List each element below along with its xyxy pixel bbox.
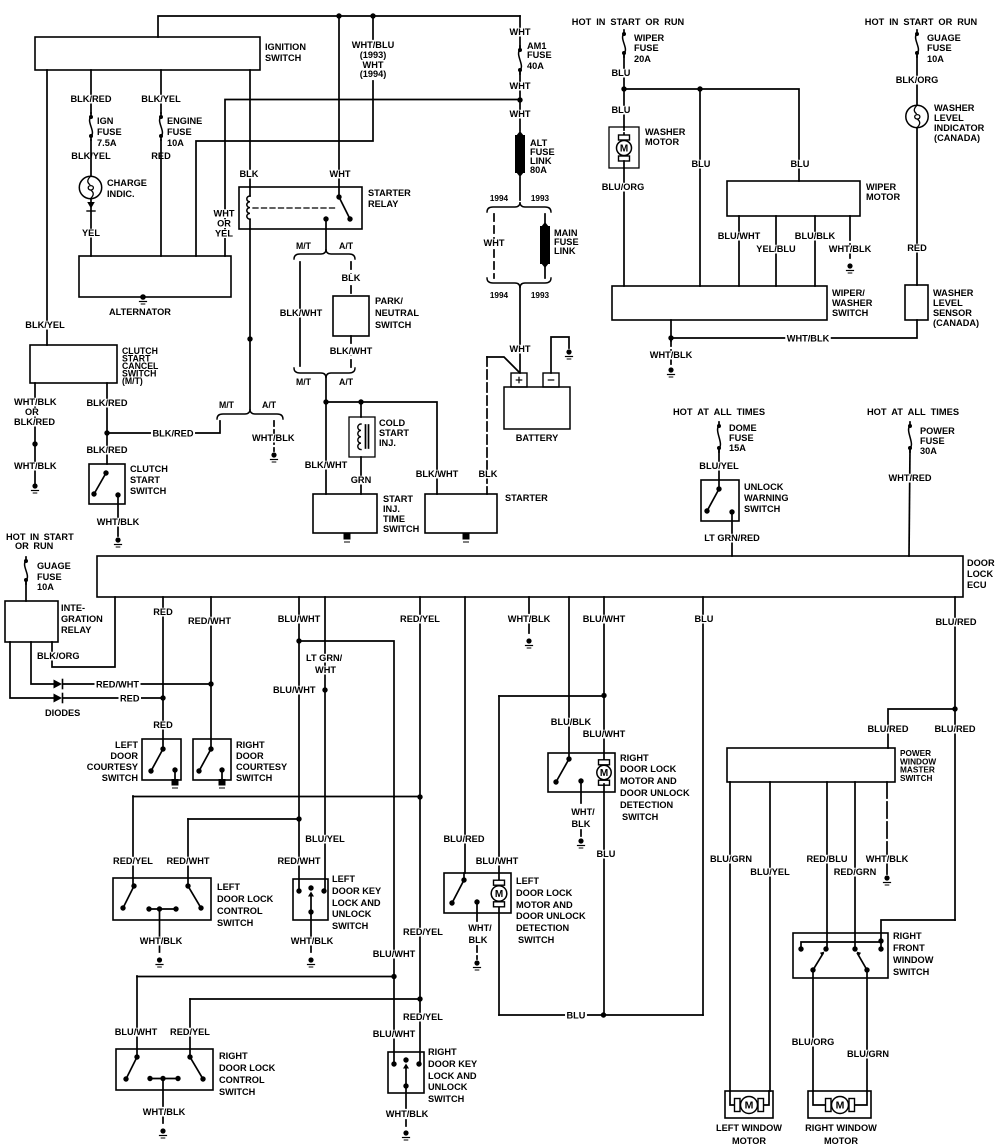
svg-text:15A: 15A (729, 443, 746, 454)
right door lock control switch box (116, 1049, 213, 1090)
wire wiper fuse to washer motor (623, 56, 625, 127)
svg-text:RED/WHT: RED/WHT (167, 856, 210, 867)
label BLU/WHT wm (716, 231, 762, 242)
svg-text:START: START (130, 475, 160, 486)
label WHT/RED (887, 473, 933, 484)
ground left door lock motor (474, 960, 481, 970)
label BLU 703 (693, 614, 715, 625)
svg-text:DIODES: DIODES (45, 708, 80, 719)
svg-text:RIGHT: RIGHT (893, 931, 922, 942)
label DIODES (45, 708, 80, 719)
svg-text:A/T: A/T (339, 377, 354, 387)
label M/T upper (296, 241, 311, 251)
label BLU/WHT 394b (371, 1029, 417, 1040)
label HOT IN START OR RUN left (6, 532, 74, 552)
wire ECU LT GRN/WHT 325 (324, 597, 326, 891)
label right door lock motor (620, 753, 690, 823)
ground clutch cancel left (32, 483, 39, 493)
wire ignition to starter relay BLK (249, 70, 251, 187)
svg-text:RED/YEL: RED/YEL (403, 927, 443, 938)
label BLU/WHT 394a (371, 949, 417, 960)
svg-text:LEFT: LEFT (115, 740, 138, 751)
label BLK/YEL 2 (140, 94, 182, 105)
svg-text:A/T: A/T (262, 400, 277, 410)
wire AM1 branch to alternator (225, 100, 520, 257)
label RED/YEL 420b (402, 927, 445, 938)
label BLU/ORG rf (790, 1037, 836, 1048)
label BLU/RED 955a (934, 617, 978, 628)
label HOT AT ALL TIMES left (673, 407, 765, 418)
svg-text:30A: 30A (920, 446, 937, 457)
wire branch to master switch (888, 709, 955, 748)
label HOT AT ALL TIMES right (867, 407, 959, 418)
wire BLU to wiper washer switch (699, 89, 701, 286)
wire clutch cancel right out (106, 383, 108, 464)
svg-text:WINDOW: WINDOW (893, 955, 933, 966)
label BLK/YEL cc (24, 320, 66, 331)
svg-text:WARNING: WARNING (744, 493, 789, 504)
ignition switch SW1 (35, 37, 260, 70)
label WHT am1 b (508, 81, 532, 92)
right door lock motor detect terminal (578, 778, 583, 837)
wire branch y819 (188, 818, 299, 820)
wire engine fuse to alternator (160, 140, 162, 256)
svg-text:LEFT: LEFT (332, 874, 355, 885)
svg-text:WHT: WHT (330, 169, 351, 180)
wire ECU BLU/WHT 299 (298, 597, 300, 891)
ground battery (566, 349, 573, 359)
motor M left door lock (491, 880, 507, 907)
svg-text:BLU/WHT: BLU/WHT (373, 1029, 416, 1040)
fuse AM1 FUSE 40A (518, 46, 522, 74)
wire ign fuse to charge indicator (90, 140, 92, 176)
label M/T lower (296, 377, 311, 387)
svg-text:BLU/BLK: BLU/BLK (795, 231, 836, 242)
wire rfws out BLU/ORG (812, 970, 814, 1091)
left door lock control switch box (113, 878, 211, 920)
label wiper washer switch (832, 288, 873, 319)
right courtesy contact (196, 746, 213, 773)
fuse GUAGE FUSE 10A left (24, 557, 28, 584)
brace 1994 1993 merge (487, 278, 551, 288)
wiper motor box M2 (727, 181, 860, 216)
svg-text:WHT/RED: WHT/RED (889, 473, 932, 484)
svg-text:BLK/YEL: BLK/YEL (141, 94, 181, 105)
svg-text:HOT IN START OR RUN: HOT IN START OR RUN (865, 17, 978, 28)
label A/T lower (339, 377, 354, 387)
label BLU/ORG (600, 182, 646, 193)
svg-text:WHT/BLK: WHT/BLK (866, 854, 909, 865)
svg-text:LOCK: LOCK (967, 569, 993, 580)
label washer motor (645, 127, 686, 148)
svg-text:DOOR LOCK: DOOR LOCK (516, 888, 572, 899)
svg-text:FUSE: FUSE (167, 127, 192, 138)
svg-text:BLU: BLU (597, 849, 616, 860)
svg-text:LEFT: LEFT (516, 876, 539, 887)
svg-text:BLU/RED: BLU/RED (444, 834, 485, 845)
label WHT/BLK wm (827, 244, 873, 255)
svg-text:BLU: BLU (695, 614, 714, 625)
wire master out RED/BLU (826, 782, 828, 949)
label WHT/BLK rcs (141, 1107, 187, 1118)
svg-text:RED: RED (907, 243, 927, 254)
label RED lc (152, 720, 175, 731)
wire ECU RED/YEL 420 (419, 597, 421, 1064)
node am1 junction (517, 97, 522, 102)
svg-text:BLK/RED: BLK/RED (71, 94, 112, 105)
svg-text:(1994): (1994) (360, 69, 387, 80)
svg-text:RED: RED (120, 694, 140, 705)
wire ECU BLU 703 (702, 597, 704, 1015)
indicator WASHER LEVEL INDICATOR (906, 105, 928, 127)
starter relay dashed link (253, 207, 336, 209)
svg-text:7.5A: 7.5A (97, 138, 117, 149)
label WHT bat (508, 344, 532, 355)
start inj time switch box (313, 494, 377, 533)
wire battery cable to starter (487, 357, 519, 494)
wire ignition to engine fuse (160, 70, 162, 113)
label wiper fuse (634, 33, 664, 65)
node splice 325 (322, 687, 327, 692)
svg-text:WHT: WHT (510, 27, 531, 38)
wire diode feed 2 (10, 642, 53, 698)
label unlock warning switch (744, 482, 789, 515)
fuse IGN FUSE 7.5A (89, 113, 93, 140)
wire left control input 1 (132, 796, 134, 886)
wire A/T branch to park neutral (350, 262, 352, 296)
svg-text:WHT: WHT (484, 238, 505, 249)
label BLU wm a (610, 68, 632, 79)
right door courtesy switch box (193, 739, 231, 780)
svg-text:COURTESY: COURTESY (87, 762, 139, 773)
svg-text:WHT/BLK: WHT/BLK (143, 1107, 186, 1118)
svg-text:80A: 80A (530, 165, 547, 176)
left window motor M3 (725, 1091, 773, 1118)
label guage fuse right (927, 33, 961, 65)
svg-text:BLK/RED: BLK/RED (87, 398, 128, 409)
wire RED diode line (63, 697, 163, 699)
svg-text:BLU/RED: BLU/RED (868, 724, 909, 735)
wire BLU 604 lower (603, 784, 605, 1015)
node 299 junction (296, 638, 301, 643)
left courtesy contact (148, 746, 165, 773)
label RED/YEL lc (112, 856, 155, 867)
left courtesy terminal (172, 767, 177, 779)
fuse ENGINE FUSE 10A (159, 113, 163, 140)
svg-text:SWITCH: SWITCH (744, 504, 780, 515)
svg-text:(CANADA): (CANADA) (933, 318, 979, 329)
svg-text:BLK/YEL: BLK/YEL (25, 320, 65, 331)
node start inj junction (323, 399, 328, 404)
label starter relay (368, 188, 411, 210)
ground right courtesy (219, 779, 226, 788)
label BLU c (690, 159, 712, 170)
wire RED/WHT diode line (63, 683, 211, 685)
right control common bar (147, 1076, 180, 1081)
label left window motor (716, 1123, 782, 1147)
svg-text:BLU/YEL: BLU/YEL (699, 461, 739, 472)
svg-text:SWITCH: SWITCH (383, 524, 419, 535)
svg-text:CLUTCH: CLUTCH (130, 464, 168, 475)
svg-text:LT GRN/: LT GRN/ (306, 653, 343, 664)
right door key lock switch box (388, 1052, 424, 1093)
left door courtesy switch box (142, 739, 181, 780)
label BLK/ORG relay (36, 651, 82, 662)
wire park neutral out (350, 336, 352, 368)
svg-text:BLU/GRN: BLU/GRN (710, 854, 752, 865)
svg-text:M/T: M/T (296, 241, 311, 251)
svg-text:M/T: M/T (296, 377, 311, 387)
label dome fuse (729, 423, 757, 454)
label power window master switch (900, 748, 937, 783)
label WHT/BLK inline (785, 334, 831, 345)
node red/wht diode junction (208, 681, 213, 686)
label 1994 a (490, 193, 509, 203)
svg-text:BLU/GRN: BLU/GRN (847, 1049, 889, 1060)
label power fuse (920, 426, 955, 457)
svg-text:BLK: BLK (342, 273, 361, 284)
svg-text:BLK/ORG: BLK/ORG (37, 651, 80, 662)
svg-text:ENGINE: ENGINE (167, 116, 202, 127)
label BLK/RED a (85, 398, 129, 409)
svg-text:BLU/RED: BLU/RED (935, 724, 976, 735)
svg-text:RED: RED (153, 607, 173, 618)
brace M/T A/T split (294, 249, 355, 259)
svg-text:RED/WHT: RED/WHT (278, 856, 321, 867)
svg-text:COURTESY: COURTESY (236, 762, 288, 773)
fuse POWER FUSE 30A (908, 422, 912, 452)
label BLU/RED 465 (442, 834, 486, 845)
label BLU/WHT 299b (272, 685, 318, 696)
svg-text:A/T: A/T (339, 241, 354, 251)
label RED (150, 151, 173, 162)
svg-text:MOTOR: MOTOR (732, 1136, 766, 1147)
wire right control input 2 (189, 999, 191, 1057)
svg-text:10A: 10A (927, 54, 944, 65)
wire junction bus to starter (326, 402, 437, 494)
svg-text:DOOR KEY: DOOR KEY (332, 886, 382, 897)
wire master out BLU/YEL (769, 782, 771, 1091)
svg-text:1994: 1994 (490, 193, 509, 203)
svg-text:GUAGE: GUAGE (37, 561, 71, 572)
label A/T clutch (262, 400, 277, 410)
svg-text:SWITCH: SWITCH (893, 967, 929, 978)
starter relay box (239, 187, 362, 229)
right key actuator (403, 1057, 409, 1129)
label RED/YEL rc (169, 1027, 212, 1038)
node 394 junction (391, 974, 396, 979)
label WHT/BLK lcs (138, 936, 184, 947)
svg-text:RIGHT: RIGHT (428, 1047, 457, 1058)
svg-text:10A: 10A (167, 138, 184, 149)
svg-text:BLK/WHT: BLK/WHT (416, 469, 459, 480)
svg-text:BLU: BLU (612, 68, 631, 79)
label WHT/BLK at (251, 433, 297, 444)
svg-text:HOT AT ALL TIMES: HOT AT ALL TIMES (867, 407, 959, 418)
wire top feed bus (158, 16, 520, 37)
left key contact b (321, 888, 326, 893)
left control contact 1 (120, 883, 136, 910)
svg-text:BLU/WHT: BLU/WHT (115, 1027, 158, 1038)
label WHT/BLK 529 (506, 614, 551, 625)
svg-text:M: M (836, 1100, 845, 1112)
right control contact 2 (187, 1054, 205, 1081)
left control contact 2 (185, 883, 203, 910)
label RED/YEL 420c (402, 1012, 445, 1023)
svg-text:SWITCH: SWITCH (265, 53, 301, 64)
svg-text:DOOR LOCK: DOOR LOCK (620, 764, 676, 775)
motor M right door lock (597, 760, 611, 785)
svg-text:MOTOR: MOTOR (645, 137, 679, 148)
fusible link ALT FUSE LINK 80A (515, 131, 525, 177)
ground right key switch (403, 1130, 410, 1140)
node wht/blk branch (668, 335, 673, 340)
svg-text:BLK/RED: BLK/RED (87, 445, 128, 456)
svg-text:UNLOCK: UNLOCK (428, 1082, 468, 1093)
svg-text:(CANADA): (CANADA) (934, 133, 980, 144)
label left door lock motor (516, 876, 586, 946)
svg-text:GRATION: GRATION (61, 614, 103, 625)
wire ECU WHT/BLK 529 (528, 597, 530, 637)
node cold start junction (358, 399, 363, 404)
left control common bar (146, 906, 178, 911)
wire dome fuse to unlock switch (718, 450, 720, 489)
right control contact 1 (123, 1054, 139, 1081)
label BLK/WHT sits (303, 460, 349, 471)
svg-text:WHT/BLK: WHT/BLK (140, 936, 183, 947)
svg-text:BLU: BLU (612, 105, 631, 116)
wire rfws out BLU/GRN (866, 970, 868, 1091)
label YEL/BLU (755, 244, 797, 255)
svg-text:DOOR LOCK: DOOR LOCK (217, 894, 273, 905)
svg-text:WHT/BLK: WHT/BLK (650, 350, 693, 361)
label BLU/WHT 499 (474, 856, 519, 867)
svg-text:LOCK AND: LOCK AND (428, 1071, 477, 1082)
svg-text:SWITCH: SWITCH (428, 1094, 464, 1105)
power window master switch box (727, 748, 895, 782)
svg-text:BLU/ORG: BLU/ORG (792, 1037, 835, 1048)
svg-text:BLK/WHT: BLK/WHT (305, 460, 348, 471)
label engine fuse (167, 116, 202, 149)
ground clutch start switch (115, 537, 122, 547)
battery B1 (504, 373, 570, 429)
svg-text:LEFT WINDOW: LEFT WINDOW (716, 1123, 782, 1134)
wire AM1 vertical (519, 16, 521, 200)
node 420 junction a (417, 794, 422, 799)
ground left control (156, 957, 163, 967)
svg-text:WHT: WHT (510, 109, 531, 120)
label left door key lock switch (332, 874, 382, 932)
svg-text:M: M (620, 143, 628, 154)
wire merge to junction (325, 377, 327, 402)
unlock warning switch box (701, 480, 739, 521)
label GRN (349, 475, 373, 486)
wire ECU BLU/RED 465 (464, 597, 465, 880)
svg-text:SWITCH: SWITCH (217, 918, 253, 929)
svg-text:BLK: BLK (469, 935, 488, 946)
svg-text:ECU: ECU (967, 580, 987, 591)
washer level sensor box (905, 285, 928, 320)
ground master wht/blk (884, 875, 891, 885)
svg-text:PARK/: PARK/ (375, 296, 403, 307)
svg-text:RIGHT: RIGHT (620, 753, 649, 764)
label WHT/BLK ws (648, 350, 694, 361)
label BLU/WHT rc (113, 1027, 159, 1038)
label HOT IN START OR RUN right (865, 17, 978, 28)
svg-text:RELAY: RELAY (61, 625, 92, 636)
svg-text:RED: RED (153, 720, 173, 731)
left door lock motor contact (449, 877, 466, 905)
right window motor M4 (808, 1091, 871, 1118)
svg-text:RED/BLU: RED/BLU (807, 854, 848, 865)
svg-text:CHARGE: CHARGE (107, 178, 147, 189)
left door lock motor detect terminal (474, 899, 479, 959)
fuse GUAGE FUSE 10A right (915, 30, 919, 57)
label BLU/GRN pw (709, 854, 754, 865)
svg-text:BLU: BLU (791, 159, 810, 170)
svg-text:BLU/WHT: BLU/WHT (273, 685, 316, 696)
label STARTER (505, 493, 548, 504)
cold start injector U2 (349, 402, 375, 494)
svg-text:CONTROL: CONTROL (217, 906, 263, 917)
svg-text:M/T: M/T (219, 400, 234, 410)
svg-text:BLU/WHT: BLU/WHT (583, 614, 626, 625)
label A/T upper (339, 241, 354, 251)
wire power fuse to ECU (909, 450, 910, 556)
label BLK/ORG right (894, 75, 940, 86)
label BLU/WHT 604a (581, 614, 627, 625)
integration relay box K1 (5, 601, 58, 642)
svg-text:SWITCH: SWITCH (130, 486, 166, 497)
label BLU/YEL uw (698, 461, 740, 472)
label BLK pn (340, 273, 362, 284)
svg-text:WHT/BLK: WHT/BLK (14, 461, 57, 472)
ground left courtesy (172, 779, 179, 788)
label BLK/WHT pn (328, 346, 374, 357)
label left door courtesy switch (87, 740, 139, 784)
wire wiper motor out4 (849, 216, 851, 258)
wire BLU/RED to window switch (881, 920, 955, 941)
wire merged WHT to battery (519, 287, 521, 373)
svg-text:DOOR: DOOR (236, 751, 264, 762)
starter relay coil (247, 187, 250, 229)
washer motor M1 (609, 127, 639, 168)
svg-text:10A: 10A (37, 582, 54, 593)
wire wiper motor out1 (738, 216, 740, 286)
wire charge indicator to alternator (87, 199, 95, 256)
wire WHT/BLK to washer level sensor (671, 320, 917, 338)
ground right control (160, 1128, 167, 1138)
label right door courtesy switch (236, 740, 288, 784)
ground wiper washer switch (668, 367, 675, 377)
label WHT/BLK rk (384, 1109, 430, 1120)
label door lock ecu (967, 558, 995, 591)
svg-text:DOOR UNLOCK: DOOR UNLOCK (516, 911, 586, 922)
label 1993 a (531, 193, 550, 203)
starter relay contact (336, 194, 352, 221)
left door lock motor box (444, 873, 511, 913)
svg-text:BLK: BLK (572, 819, 591, 830)
label 1993 b (531, 290, 550, 300)
wire ECU BLU/BLK 569 (568, 597, 570, 759)
ground start inj time switch (344, 533, 351, 542)
svg-text:WHT/: WHT/ (571, 807, 595, 818)
label washer level indicator (934, 103, 984, 144)
ground left key switch (308, 957, 315, 967)
svg-text:BLK/RED: BLK/RED (14, 417, 55, 428)
svg-text:MOTOR AND: MOTOR AND (620, 776, 677, 787)
svg-text:RELAY: RELAY (368, 199, 399, 210)
